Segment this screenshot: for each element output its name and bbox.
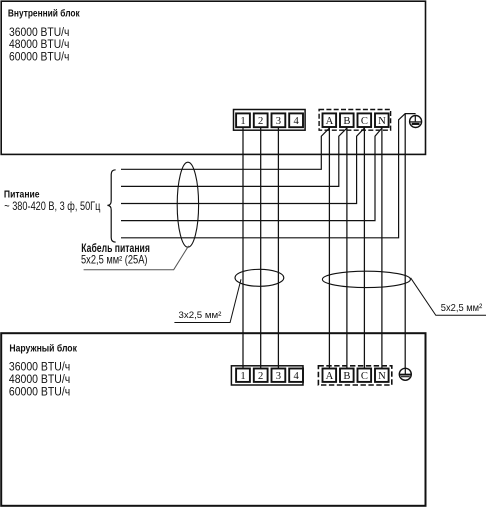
interconnect cable ellipse 3-core: [235, 269, 284, 286]
power line neutral to terminal N: [121, 128, 382, 221]
svg-text:Питание: Питание: [4, 189, 40, 200]
svg-text:2: 2: [258, 371, 263, 382]
terminal block indoor 1-4 outer: [234, 110, 306, 131]
terminal indoor N: [375, 113, 389, 127]
svg-text:3х2,5 мм²: 3х2,5 мм²: [179, 310, 223, 321]
svg-text:60000 BTU/ч: 60000 BTU/ч: [9, 385, 70, 399]
interconnect cable ellipse 5-core: [322, 271, 410, 287]
terminal outdoor 3: [272, 369, 286, 383]
svg-text:1: 1: [240, 116, 245, 127]
leader 3-core: [174, 279, 241, 322]
power line phase A to terminal A: [121, 128, 329, 169]
terminal outdoor N: [375, 369, 389, 383]
wire terminal B indoor-outdoor: [346, 127, 348, 368]
power line phase C to terminal C: [121, 128, 364, 203]
leader 5-core: [411, 278, 486, 316]
svg-text:4: 4: [293, 116, 299, 127]
terminal indoor 2: [254, 113, 268, 127]
terminal outdoor A: [323, 369, 337, 383]
svg-text:N: N: [378, 371, 386, 382]
terminal indoor 1: [236, 113, 250, 127]
svg-text:5х2,5 мм² (25А): 5х2,5 мм² (25А): [81, 254, 148, 267]
svg-text:C: C: [361, 116, 368, 127]
outdoor unit box: [1, 333, 425, 506]
brace power supply: [107, 170, 115, 242]
terminal block outdoor A-N outer (dashed): [318, 366, 391, 385]
svg-text:Внутренний блок: Внутренний блок: [8, 9, 80, 20]
svg-text:B: B: [343, 371, 350, 382]
svg-text:A: A: [326, 371, 334, 382]
terminal outdoor C: [358, 369, 372, 383]
svg-text:1: 1: [240, 371, 245, 382]
power cable ellipse: [177, 162, 198, 247]
terminal indoor 4: [289, 113, 303, 127]
svg-text:2: 2: [258, 116, 263, 127]
terminal outdoor 1: [236, 369, 250, 383]
ground symbol outdoor: [399, 368, 411, 380]
terminal outdoor 4: [289, 369, 303, 383]
wire terminal A indoor-outdoor: [328, 127, 330, 368]
wire terminal C indoor-outdoor: [363, 127, 365, 368]
svg-text:4: 4: [293, 371, 299, 382]
indoor unit box: [1, 1, 425, 154]
svg-text:N: N: [378, 116, 386, 127]
terminal indoor B: [340, 113, 354, 127]
terminal indoor C: [358, 113, 372, 127]
svg-text:~ 380-420 В, 3 ф, 50Гц: ~ 380-420 В, 3 ф, 50Гц: [4, 201, 100, 213]
svg-text:A: A: [326, 116, 334, 127]
terminal outdoor 2: [254, 369, 268, 383]
terminal indoor 3: [272, 113, 286, 127]
terminal block outdoor 1-4 outer: [231, 366, 303, 385]
leader power cable: [84, 246, 189, 270]
wire terminal N indoor-outdoor: [381, 127, 383, 368]
svg-text:5х2,5 мм²: 5х2,5 мм²: [441, 303, 483, 314]
power line earth to ground symbol: [121, 114, 416, 238]
terminal block indoor A-N outer (dashed): [319, 110, 391, 131]
terminal outdoor B: [340, 369, 354, 383]
wire ground indoor-outdoor: [404, 114, 406, 369]
wire terminal1 indoor-outdoor: [242, 127, 244, 368]
ground symbol indoor: [410, 116, 422, 128]
svg-text:Наружный блок: Наружный блок: [9, 343, 77, 354]
svg-text:3: 3: [276, 116, 281, 127]
svg-text:C: C: [361, 371, 368, 382]
terminal indoor A: [323, 113, 337, 127]
svg-text:3: 3: [276, 371, 281, 382]
svg-text:B: B: [343, 116, 350, 127]
power line phase B to terminal B: [121, 128, 347, 186]
wire terminal3 indoor-outdoor: [277, 127, 279, 368]
wire terminal2 indoor-outdoor: [260, 127, 262, 368]
svg-text:60000 BTU/ч: 60000 BTU/ч: [9, 49, 69, 63]
